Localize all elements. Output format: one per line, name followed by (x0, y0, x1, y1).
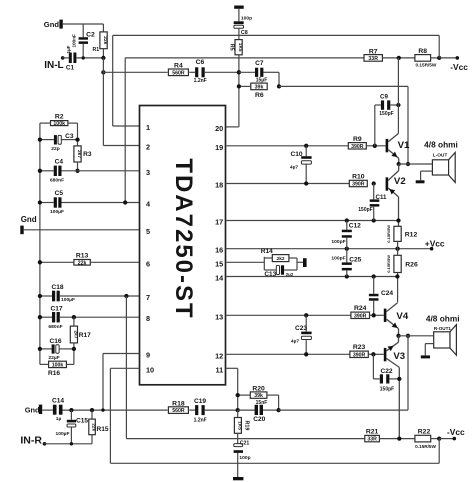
capacitor C24 (373, 277, 375, 294)
svg-text:0.15R/5W: 0.15R/5W (386, 255, 391, 273)
resistor R26 (394, 255, 401, 272)
svg-text:100pF: 100pF (331, 239, 345, 245)
svg-text:33R: 33R (367, 437, 377, 443)
svg-text:20: 20 (215, 124, 223, 133)
svg-text:R5: R5 (229, 44, 235, 51)
svg-text:C3: C3 (65, 133, 74, 140)
junction V3 emitter dot (397, 436, 401, 440)
svg-text:22µF: 22µF (48, 355, 59, 361)
op-amp IC U1 TDA7250-ST body (140, 106, 226, 385)
svg-text:C24: C24 (381, 290, 393, 297)
svg-text:2k2: 2k2 (277, 256, 285, 262)
wire R18 to C19 (189, 409, 195, 411)
resistor R23 (350, 351, 368, 357)
capacitor C14 (53, 405, 57, 415)
svg-text:C2: C2 (86, 32, 95, 39)
transistor Q V2 (386, 177, 389, 190)
capacitor C25 (100pF) (346, 249, 348, 263)
svg-text:100µF: 100µF (56, 431, 70, 437)
wire R8 to -Vcc node (431, 57, 440, 59)
wire C9 right to collector rail (390, 104, 398, 106)
wire gnd bar to C8 (238, 9, 240, 21)
svg-text:C21: C21 (240, 441, 250, 447)
resistor R20 (250, 392, 267, 398)
svg-text:R22: R22 (418, 428, 431, 435)
svg-text:390R: 390R (352, 182, 365, 188)
svg-text:1µ: 1µ (56, 416, 62, 422)
capacitor C9 (150pF) (381, 100, 384, 109)
svg-text:13: 13 (215, 312, 223, 321)
wire R4-C6 line (103, 71, 167, 73)
svg-text:4/8 ohmi: 4/8 ohmi (426, 314, 460, 324)
resistor R21 (365, 435, 380, 441)
svg-text:14: 14 (215, 274, 224, 283)
svg-text:R4: R4 (174, 63, 183, 70)
ground bar (bottom center) (233, 477, 243, 480)
-Vcc terminal (top) (456, 56, 460, 60)
junction R output dots (396, 334, 400, 338)
svg-text:V3: V3 (393, 351, 405, 362)
svg-text:680nF: 680nF (48, 324, 62, 330)
svg-text:R24: R24 (354, 305, 367, 312)
junction pin11/R19/R20 dot (236, 408, 240, 412)
wire R feedback vertical (407, 336, 409, 410)
svg-text:4µ7: 4µ7 (290, 165, 299, 171)
svg-text:39k: 39k (255, 84, 264, 90)
wire feedback line to R output (279, 409, 408, 411)
svg-text:560R: 560R (172, 408, 185, 414)
svg-text:150pF: 150pF (358, 207, 372, 213)
capacitor C2 (79, 37, 88, 40)
wire input node to pin 2 (103, 145, 139, 147)
junction R15 top dot (90, 408, 94, 412)
wire pin 1 drop (112, 35, 114, 126)
svg-text:6: 6 (146, 259, 150, 268)
svg-text:17: 17 (215, 218, 223, 227)
svg-text:R14: R14 (261, 248, 273, 255)
capacitor C22 (150pF) (372, 354, 374, 379)
wire R7 to junction (382, 57, 415, 59)
resistor R1 (102, 24, 104, 32)
wire R23 to V3 base (368, 353, 384, 355)
wire Gnd to pin 5 (24, 229, 140, 231)
wire C2 drop from Gnd wire (82, 24, 84, 37)
resistor R12 (394, 226, 401, 241)
transistor Q V3 (384, 348, 387, 361)
svg-text:100p: 100p (239, 455, 250, 461)
svg-text:100pF: 100pF (331, 255, 345, 261)
resistor R18 (168, 407, 188, 414)
wire IN-R line (45, 443, 93, 445)
wire R9 to V1 base (366, 145, 385, 147)
svg-text:R-OUT1: R-OUT1 (434, 326, 452, 331)
svg-text:C23: C23 (295, 325, 307, 332)
wire R4 to C6 (189, 71, 195, 73)
svg-text:C17: C17 (50, 306, 62, 313)
svg-text:C14: C14 (52, 397, 64, 404)
capacitor C13 (264, 269, 276, 271)
svg-text:3: 3 (146, 168, 150, 177)
svg-text:10: 10 (146, 365, 154, 374)
resistor R17 (73, 317, 75, 326)
svg-text:C15: C15 (76, 418, 88, 425)
svg-text:C10: C10 (290, 151, 302, 158)
svg-text:R19: R19 (244, 421, 250, 431)
svg-text:22k: 22k (102, 36, 108, 44)
wire pin7 vertical down to R21 line (125, 296, 127, 439)
svg-text:-Vcc: -Vcc (447, 427, 465, 437)
svg-text:0.15R/5W: 0.15R/5W (415, 444, 436, 449)
svg-text:7: 7 (146, 293, 150, 302)
junction R6/C7 right dot (277, 84, 281, 88)
capacitor C21 (100p polarized) (234, 444, 243, 447)
resistor R6 (251, 83, 267, 90)
svg-text:2k7: 2k7 (76, 150, 82, 158)
ground terminal bar (bottom left) (39, 405, 42, 414)
ground bar R speaker (421, 355, 430, 358)
wire -Vcc down corner (438, 439, 440, 464)
svg-text:Gnd: Gnd (44, 20, 60, 29)
junction -Vcc top dot (437, 56, 441, 60)
svg-text:R15: R15 (96, 426, 108, 433)
resistor R22 (415, 435, 431, 442)
svg-text:Gnd: Gnd (21, 215, 37, 224)
svg-text:C12: C12 (349, 223, 361, 230)
svg-text:R1: R1 (92, 47, 99, 53)
svg-text:C16: C16 (49, 338, 61, 345)
svg-text:C5: C5 (55, 190, 64, 197)
svg-text:1.2nF: 1.2nF (194, 78, 207, 84)
junction C10 top dot (304, 144, 308, 148)
capacitor C5 (40, 202, 54, 204)
svg-text:1µF: 1µF (66, 45, 71, 53)
junction V3 base dot (371, 352, 375, 356)
junction C11 bottom dot (372, 218, 376, 222)
svg-text:15nF: 15nF (256, 400, 268, 406)
junction V4 collector dot (395, 274, 399, 278)
svg-text:390R: 390R (354, 313, 367, 319)
wire pin 18 line (226, 183, 350, 185)
svg-text:4µ7: 4µ7 (291, 339, 300, 345)
capacitor C7 (239, 71, 255, 73)
wire R2 left corner (40, 122, 51, 124)
svg-text:100µF: 100µF (50, 209, 64, 215)
junction V2 base dot (372, 181, 376, 185)
-Vcc terminal (bottom) (439, 438, 454, 440)
wire feedback to L output (279, 85, 408, 87)
wire pin 4 drop (124, 58, 126, 203)
+Vcc terminal (430, 247, 434, 251)
resistor R4 (168, 69, 188, 76)
svg-text:C25: C25 (349, 257, 361, 264)
wire R26 top/bottom (397, 241, 399, 255)
svg-text:100k: 100k (52, 362, 64, 368)
junction R4C6/R5 node dot (237, 70, 241, 74)
svg-text:R16: R16 (48, 370, 60, 377)
resistor R15 (91, 410, 93, 419)
svg-text:C20: C20 (253, 416, 265, 423)
junction C15 top dot (69, 408, 73, 412)
svg-text:1.2nF: 1.2nF (194, 418, 207, 424)
junction pin7 drop dot (124, 294, 128, 298)
svg-text:680nF: 680nF (50, 178, 64, 184)
wire pin 17 line (226, 220, 399, 222)
resistor R24 (351, 312, 370, 318)
wire C14 to R18 line (63, 409, 168, 411)
wire C2 bottom to input node (82, 44, 84, 58)
wire top rail (pin1 to -Vcc) (113, 34, 440, 36)
svg-text:R13: R13 (76, 253, 89, 260)
capacitor C18 (40, 295, 52, 297)
svg-text:V2: V2 (394, 176, 406, 187)
capacitor C17 (40, 316, 52, 318)
svg-text:+Vcc: +Vcc (425, 238, 445, 248)
junction pin4 dot (123, 200, 127, 204)
resistor R13 (74, 260, 90, 266)
wire R5 to junction (238, 55, 240, 127)
svg-text:22p: 22p (51, 146, 59, 152)
svg-text:5: 5 (146, 227, 150, 236)
junction C23 bottom dot (304, 352, 308, 356)
wire C6 to mid vertical (205, 71, 238, 73)
transistor Q V4 (384, 309, 387, 322)
node input-L junction dots (82, 56, 85, 59)
svg-text:C1: C1 (66, 65, 75, 72)
svg-text:V4: V4 (396, 311, 408, 322)
svg-text:L-OUT: L-OUT (433, 153, 448, 159)
junction +Vcc dot (395, 247, 399, 251)
svg-text:15: 15 (215, 259, 223, 268)
capacitor C3 (22p) (40, 139, 54, 141)
svg-text:R18: R18 (172, 401, 185, 408)
wire pin 16 line (+Vcc) (226, 248, 432, 250)
wire pin 13 line (226, 314, 351, 316)
svg-text:R23: R23 (353, 344, 366, 351)
capacitor C11 (150pF) (373, 184, 375, 200)
wire V1 collector rail (397, 58, 399, 134)
resistor R8 (415, 55, 431, 62)
capacitor C10 (4µ7 polarized) (305, 146, 307, 156)
svg-text:390R: 390R (353, 352, 366, 358)
transistor Q V1 (386, 139, 389, 152)
wire R speaker to ground (425, 343, 433, 345)
ground terminal bar (mid left) (20, 226, 23, 235)
capacitor C19 (195, 405, 198, 415)
wire pin 9 line (103, 353, 140, 355)
wire pin 11 to bottom node (226, 367, 238, 369)
svg-text:2k7: 2k7 (72, 330, 78, 338)
wire R24 to V4 base (370, 314, 384, 316)
terminal bar at R14/C13 (303, 258, 307, 267)
svg-text:Gnd: Gnd (25, 406, 40, 415)
resistor R16 (49, 361, 67, 367)
wire R16 loop (40, 363, 49, 365)
wire R20 right corner down (267, 394, 279, 396)
junction V1 collector / R7 R8 dot (397, 56, 401, 60)
wire pin 19 line (226, 145, 349, 147)
svg-text:4/8 ohmi: 4/8 ohmi (424, 140, 458, 150)
capacitor C20 (238, 409, 255, 411)
junction C10 bottom dot (304, 181, 308, 185)
svg-text:1K5: 1K5 (236, 421, 242, 430)
svg-text:19: 19 (215, 143, 223, 152)
junction pin 9 to gnd-line dot (101, 408, 104, 411)
svg-text:18: 18 (215, 181, 223, 190)
capacitor C16 (22µF) (40, 348, 52, 350)
svg-text:R3: R3 (83, 151, 92, 158)
svg-text:C8: C8 (241, 30, 248, 36)
svg-text:8: 8 (146, 314, 150, 323)
svg-text:0.15R/5W: 0.15R/5W (415, 63, 436, 68)
svg-text:560R: 560R (172, 70, 185, 76)
svg-text:C18: C18 (51, 284, 63, 291)
svg-text:150pF: 150pF (380, 387, 394, 393)
svg-text:C22: C22 (380, 368, 392, 375)
svg-text:100µF: 100µF (61, 297, 75, 303)
junction C24 top dot (372, 274, 376, 278)
svg-text:IN-L: IN-L (44, 60, 63, 71)
svg-text:IN-R: IN-R (20, 434, 42, 446)
wire R14C13 right node to bar (296, 258, 298, 270)
capacitor C12 (100pF) (346, 221, 348, 230)
wire R6 left to mid vertical (239, 85, 251, 87)
capacitor C23 (4µ7 polarized) (305, 315, 307, 331)
svg-text:R10: R10 (352, 173, 365, 180)
wire C7 right corner down (263, 71, 279, 73)
svg-text:100p: 100p (241, 15, 252, 21)
svg-text:100nF: 100nF (72, 34, 77, 47)
capacitor C4 (40, 170, 54, 172)
junction C23 top dot (304, 313, 308, 317)
wire R2 right corner (68, 122, 78, 124)
wire R22 to -Vcc node (431, 438, 440, 440)
wire pin 10 line (110, 367, 139, 369)
junction C20/R20 right dot (276, 408, 280, 412)
resistor R2 (51, 121, 68, 126)
svg-text:390R: 390R (351, 144, 364, 150)
resistor R19 (237, 410, 239, 417)
wire R3 bottom to pin3 line (77, 162, 79, 171)
wire L output line (399, 163, 433, 165)
resistor R5 (235, 40, 242, 55)
svg-text:C9: C9 (380, 94, 388, 101)
svg-text:1K5: 1K5 (237, 43, 243, 52)
svg-text:R17: R17 (79, 332, 91, 339)
svg-text:C11: C11 (375, 194, 387, 201)
svg-text:R8: R8 (418, 48, 427, 55)
svg-text:11: 11 (215, 365, 223, 374)
wire Gnd to C14 (42, 409, 53, 411)
svg-text:R9: R9 (353, 136, 362, 143)
svg-text:1: 1 (146, 123, 150, 132)
svg-text:9: 9 (146, 351, 150, 360)
svg-text:150pF: 150pF (379, 111, 393, 117)
wire R20 left (238, 394, 251, 396)
wire bootstrap line y58 (pin4 to R7) (125, 57, 364, 59)
svg-text:R20: R20 (252, 385, 265, 392)
wire pin 14 line (226, 276, 398, 278)
svg-text:12: 12 (215, 351, 223, 360)
svg-text:V1: V1 (398, 140, 410, 151)
wire R output line (399, 335, 434, 337)
resistor R10 (349, 180, 367, 186)
wire C9 left vertical (374, 105, 376, 146)
resistor R9 (348, 143, 366, 149)
resistor R3 (74, 146, 81, 162)
resistor R14 parallel C13 network (263, 257, 265, 270)
svg-text:22k: 22k (78, 260, 87, 266)
wire pin 12 line (226, 353, 350, 355)
ground bar L speaker (416, 180, 425, 183)
svg-text:R12: R12 (405, 232, 418, 239)
wire bottom -Vcc rail (110, 462, 439, 464)
svg-text:C7: C7 (255, 60, 264, 67)
resistor R7 (364, 55, 382, 62)
svg-text:R21: R21 (366, 428, 379, 435)
svg-text:16: 16 (215, 246, 223, 255)
wire R13 line to pin 6 (40, 261, 74, 263)
svg-text:TDA7250-ST: TDA7250-ST (170, 158, 197, 319)
wire top rail corner down (438, 35, 440, 58)
wire pin 20 from mid vertical (226, 126, 239, 128)
svg-text:-Vcc: -Vcc (450, 62, 468, 72)
capacitor C8 (polarized) (234, 21, 244, 24)
wire C1 to input node (76, 57, 103, 59)
capacitor C6 (195, 67, 198, 77)
wire C21 to ground bar (237, 453, 239, 477)
svg-text:R26: R26 (405, 262, 418, 269)
svg-text:39k: 39k (254, 393, 263, 399)
wire C8 to R5 (238, 28, 240, 39)
svg-text:2: 2 (146, 143, 150, 152)
wire pin 15 line (226, 261, 265, 263)
capacitor C1 (69, 53, 72, 64)
wire C19 to pin11 node (205, 409, 238, 411)
wire IN-L to C1 (63, 57, 69, 59)
wire L speaker to ground (421, 170, 433, 172)
svg-text:100k: 100k (53, 121, 65, 127)
wire R19 to C21 (237, 433, 239, 443)
svg-text:R2: R2 (55, 113, 64, 120)
wire Gnd to R1 top (63, 23, 104, 25)
wire input node vertical (102, 58, 104, 146)
wire R21 to V3 emitter junction (379, 438, 415, 440)
wire -Vcc stub (439, 57, 457, 59)
svg-text:33R: 33R (368, 56, 378, 62)
junction C12 dots (345, 218, 349, 222)
junction C9 left dot (373, 144, 377, 148)
ground bar above C8 (234, 6, 244, 9)
junction C25 dots (345, 274, 349, 278)
svg-text:C4: C4 (55, 159, 64, 166)
ground terminal bar (top left Gnd) (59, 20, 62, 29)
svg-text:R7: R7 (369, 48, 378, 55)
svg-text:C19: C19 (194, 398, 206, 405)
svg-text:C6: C6 (196, 59, 205, 66)
junction L output dots (397, 162, 401, 166)
svg-text:R6: R6 (255, 92, 264, 99)
wire V2 emitter down to R12 (398, 197, 400, 227)
capacitor C15 (100µF polarized) (70, 410, 72, 420)
svg-text:0.15R/5W: 0.15R/5W (386, 225, 391, 243)
